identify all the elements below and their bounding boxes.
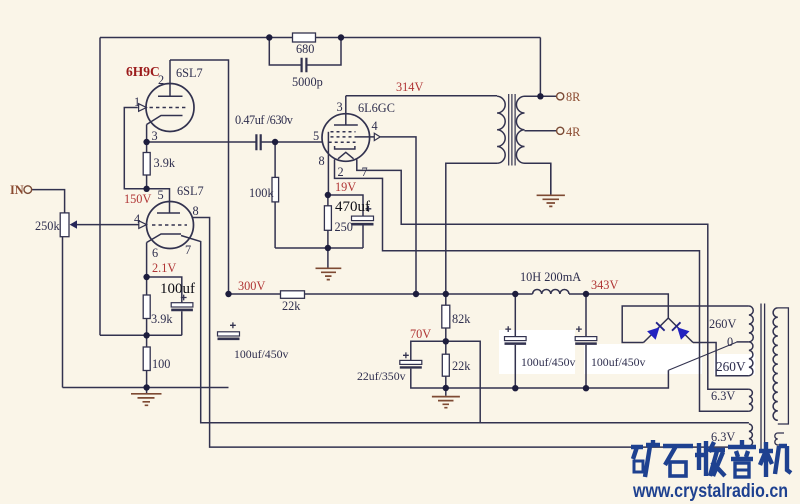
wire feedback left drop — [99, 38, 101, 336]
glyph kuang — [631, 440, 660, 477]
V2 grid arrow — [139, 221, 147, 229]
wire V3 heater pin2 — [335, 160, 749, 412]
resistor 3.9k R2 — [143, 295, 150, 319]
svg-text:7: 7 — [362, 165, 368, 179]
svg-text:680: 680 — [296, 42, 314, 56]
V3 plate bar — [334, 124, 358, 126]
svg-text:260V: 260V — [716, 359, 746, 374]
svg-text:6SL7: 6SL7 — [177, 184, 204, 198]
transformer OPT secondary winding — [516, 96, 524, 163]
diode D1 — [647, 322, 665, 339]
svg-text:343V: 343V — [591, 278, 618, 292]
V3 grid dashes rows — [329, 132, 356, 143]
wire 82k leads — [445, 294, 447, 341]
svg-text:100uf/450v: 100uf/450v — [591, 355, 645, 369]
svg-text:6SL7: 6SL7 — [176, 66, 203, 80]
transformer PT HV winding — [749, 306, 753, 376]
V3 beam plates — [335, 146, 355, 149]
svg-text:8: 8 — [319, 154, 325, 168]
glyph shou — [695, 441, 725, 476]
svg-text:19V: 19V — [335, 180, 356, 194]
wire 5000p bypass loop — [269, 38, 341, 66]
wire 2.1V node to 100uf cap — [147, 277, 182, 303]
potentiometer 250k body — [60, 213, 69, 237]
svg-text:8: 8 — [193, 204, 199, 218]
V1 grid arrow — [139, 104, 147, 112]
svg-text:5: 5 — [158, 188, 164, 202]
glyph shi — [663, 446, 693, 476]
resistor 100 cathode — [143, 347, 150, 371]
wire V1 cathode output to coupling cap — [147, 141, 256, 143]
svg-text:6.3V: 6.3V — [711, 430, 735, 444]
wire IN jack to pot — [32, 190, 65, 213]
wire 250R leads — [327, 195, 329, 248]
svg-text:2: 2 — [338, 165, 344, 179]
V1 plate bar — [158, 95, 183, 97]
wire NFB node — [100, 311, 182, 335]
wire filter cap C2 leads — [514, 294, 516, 388]
wire V3 plate to OPT — [346, 96, 497, 125]
svg-text:1: 1 — [134, 95, 140, 109]
transformer PT core — [761, 304, 765, 450]
resistor 100k grid leak — [272, 177, 279, 202]
svg-text:250k: 250k — [35, 219, 60, 233]
V2 cathode — [147, 234, 181, 243]
ground V3 cathode — [316, 248, 342, 280]
wire V3 screen pin4 to B+ — [380, 137, 416, 294]
svg-text:6.3V: 6.3V — [711, 389, 735, 403]
svg-text:100: 100 — [152, 357, 170, 371]
svg-text:3.9k: 3.9k — [151, 312, 173, 326]
wire 100k grid leak leads — [274, 142, 276, 248]
glyph yin — [728, 440, 756, 477]
wire HV center tap stub — [736, 341, 749, 343]
wire rectifier right anode — [693, 343, 749, 376]
svg-text:150V: 150V — [124, 192, 151, 206]
wire 70V node to 22uf — [411, 341, 446, 388]
wire 470uf leads — [328, 195, 363, 248]
wire V1 plate lead — [169, 60, 171, 96]
resistor 3.9k R1 — [143, 153, 150, 176]
svg-text:10H 200mA: 10H 200mA — [520, 270, 581, 284]
capacitor 22uf/350v — [400, 352, 422, 367]
op-amp V1 6SL7 triode-1 envelope — [146, 84, 194, 132]
wire 22k divider leads — [445, 341, 447, 388]
wire OPT secondary top to 8R — [525, 95, 557, 97]
capacitor 5000p — [302, 58, 307, 73]
V2 grid dashes — [152, 224, 187, 226]
wire V2 cathode lead — [146, 243, 148, 278]
wire V3 heater pin7 — [357, 160, 749, 390]
diode D2 — [672, 322, 690, 339]
ground input stage — [131, 388, 162, 406]
wire feedback tap to 8R node — [539, 38, 541, 97]
svg-text:70V: 70V — [410, 327, 431, 341]
svg-text:www.crystalradio.cn: www.crystalradio.cn — [632, 481, 788, 502]
terminal 8R — [557, 93, 564, 100]
V3 cathode chevron — [338, 152, 354, 159]
wire V1 grid feed from 150V node — [124, 108, 146, 189]
svg-text:22k: 22k — [452, 359, 471, 373]
inductor choke 10H 200mA — [533, 289, 569, 294]
svg-text:22uf/350v: 22uf/350v — [357, 369, 406, 383]
transformer OPT core — [509, 94, 515, 166]
wire V3 cathode pin8 — [327, 132, 329, 195]
ground power supply — [432, 388, 460, 408]
wire pot bottom — [62, 237, 64, 388]
svg-text:314V: 314V — [396, 80, 423, 94]
resistor 82k divider — [442, 305, 450, 328]
tube V2 6SL7 triode-2 envelope — [147, 202, 194, 249]
transformer PT 6.3V winding 2 — [749, 424, 753, 446]
svg-text:260V: 260V — [709, 317, 736, 331]
capacitor C2 100uf/450v — [505, 326, 527, 343]
svg-text:300V: 300V — [238, 279, 265, 293]
svg-text:6L6GC: 6L6GC — [358, 101, 395, 115]
svg-text:7: 7 — [185, 243, 191, 257]
wire V1 plate to B+ — [170, 60, 229, 294]
svg-text:6Н9С: 6Н9С — [126, 64, 160, 79]
svg-text:250: 250 — [335, 220, 353, 234]
capacitor C1 100uf/450v — [218, 322, 240, 338]
wire OPT secondary return to ground — [525, 163, 551, 194]
svg-text:100uf/450v: 100uf/450v — [521, 355, 575, 369]
wire 6SL7 heater pin8 rail — [192, 218, 749, 448]
svg-text:0: 0 — [727, 335, 733, 349]
svg-text:8R: 8R — [566, 90, 581, 104]
wire 100R leads — [146, 335, 148, 387]
wire V3 g1 stub — [356, 136, 375, 138]
svg-text:22k: 22k — [282, 299, 301, 313]
wire 6SL7 heater pin7 rail — [181, 236, 749, 423]
V2 plate bar — [157, 212, 180, 214]
svg-text:82k: 82k — [452, 312, 471, 326]
wire filter cap C3 leads — [585, 294, 587, 388]
wire power ground rail — [446, 370, 669, 388]
svg-text:3.9k: 3.9k — [154, 156, 176, 170]
svg-text:2: 2 — [158, 73, 164, 87]
wire coupling cap to V3 grid — [261, 141, 323, 143]
svg-text:2.1V: 2.1V — [152, 261, 176, 275]
svg-text:IN: IN — [10, 183, 24, 197]
svg-text:4: 4 — [134, 212, 140, 226]
svg-text:470uf: 470uf — [335, 199, 370, 215]
svg-text:4: 4 — [372, 119, 378, 133]
resistor 250 cathode — [324, 206, 331, 231]
wire rectifier diagonals — [644, 318, 694, 343]
transformer PT primary lead — [778, 308, 789, 424]
resistor 22k divider — [442, 354, 449, 376]
terminal 4R — [557, 127, 564, 134]
svg-text:5000p: 5000p — [292, 75, 323, 89]
wire OPT primary return — [446, 163, 497, 294]
svg-text:3: 3 — [152, 129, 158, 143]
transformer PT primary tap winding — [775, 433, 784, 445]
capacitor 0.47uf coupling — [256, 134, 260, 150]
capacitor 100uf cathode bypass — [171, 295, 193, 310]
wire rectifier left anode loop — [622, 306, 749, 343]
wire 3.9k R1 leads — [146, 142, 148, 189]
transformer PT primary winding — [773, 308, 778, 420]
wire V2 grid from pot wiper — [76, 224, 138, 226]
input jack circle — [24, 186, 32, 194]
watermark CJK glyphs — [631, 440, 791, 477]
V1 grid dashes — [150, 107, 187, 109]
svg-text:100uf: 100uf — [160, 281, 195, 297]
V3 pin4 arrow — [374, 133, 380, 140]
svg-text:4R: 4R — [566, 125, 581, 139]
wire 70V heater bias drop — [446, 341, 480, 423]
resistor 680 feedback — [293, 33, 316, 42]
wire V3 cathode ground bus — [275, 247, 363, 249]
wire HV center tap pointer — [668, 342, 736, 370]
wire V2 plate lead — [147, 189, 170, 213]
transformer PT 6.3V winding 1 — [749, 389, 753, 411]
svg-text:5: 5 — [313, 129, 319, 143]
potentiometer wiper arrow — [70, 220, 77, 228]
svg-text:6: 6 — [152, 246, 158, 260]
svg-text:3: 3 — [337, 100, 343, 114]
transformer OPT primary winding — [497, 96, 505, 163]
wire V1 cathode lead — [146, 125, 148, 143]
capacitor C3 100uf/450v — [575, 326, 597, 343]
svg-text:0.47uf /630v: 0.47uf /630v — [235, 113, 294, 127]
wire input ground rail — [63, 387, 229, 389]
wire B+ rail — [229, 294, 669, 318]
capacitor 470uf cathode bypass — [352, 206, 374, 224]
glyph ji — [759, 442, 791, 477]
resistor 22k B+ dropper — [281, 291, 305, 299]
ground OPT secondary — [537, 163, 565, 206]
wire 3.9k R2 leads — [146, 277, 148, 335]
V1 cathode — [147, 116, 183, 125]
svg-text:100k: 100k — [249, 186, 274, 200]
wire feedback top rail — [100, 37, 540, 39]
tube V3 6L6GC envelope — [322, 114, 370, 162]
svg-text:100uf/450v: 100uf/450v — [234, 347, 288, 361]
wire OPT 4R tap — [525, 130, 557, 132]
